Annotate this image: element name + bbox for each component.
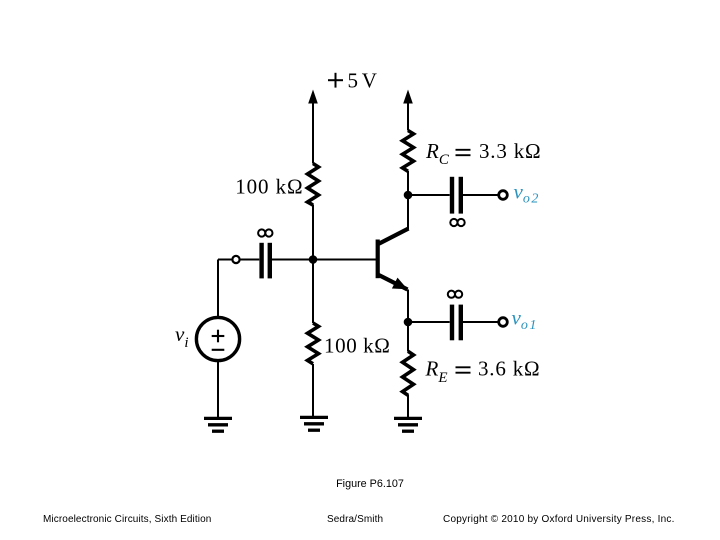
svg-text:Microelectronic Circuits, Sixt: Microelectronic Circuits, Sixth Edition — [43, 514, 211, 525]
svg-text:100 kΩ: 100 kΩ — [324, 334, 390, 358]
svg-text:3.6 kΩ: 3.6 kΩ — [478, 357, 540, 381]
svg-text:3.3 kΩ: 3.3 kΩ — [479, 139, 541, 163]
svg-text:5V: 5V — [348, 69, 377, 93]
svg-text:Copyright © 2010 by Oxford Uni: Copyright © 2010 by Oxford University Pr… — [443, 514, 675, 525]
svg-text:Figure P6.107: Figure P6.107 — [336, 478, 404, 490]
svg-text:Sedra/Smith: Sedra/Smith — [327, 514, 383, 525]
svg-text:100 kΩ: 100 kΩ — [235, 175, 303, 199]
